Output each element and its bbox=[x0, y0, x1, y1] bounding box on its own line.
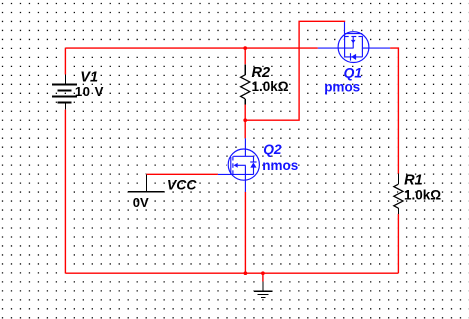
Q2 bulk arrow (points left into channel) bbox=[234, 163, 238, 168]
Q2 source pin (bottom) bbox=[244, 174, 246, 192]
wire: V1 bottom to bottom rail bbox=[64, 110, 66, 274]
svg-text:Q1: Q1 bbox=[344, 65, 362, 80]
svg-text:V1: V1 bbox=[80, 69, 98, 85]
node junction Q2 source at rail bbox=[244, 271, 248, 275]
svg-text:1.0kΩ: 1.0kΩ bbox=[404, 187, 441, 202]
Q1 left lead (to VDD rail node) bbox=[318, 47, 353, 49]
transistor Q1 pmos bbox=[318, 22, 390, 63]
node junction mid bbox=[243, 118, 247, 122]
VCC power symbol bbox=[128, 174, 164, 191]
ground bbox=[254, 282, 273, 298]
white casing to cover grid dots under wires bbox=[53, 21, 403, 297]
wire: VCC to Q2 gate bbox=[146, 173, 218, 175]
wire: mid rail node to riser bbox=[245, 21, 344, 120]
Q1 bulk arrow (points down) bbox=[351, 40, 356, 44]
wire: top rail V1+ to Q1 gate-node bbox=[65, 47, 317, 49]
Q1 source line (left vertical) bbox=[344, 34, 346, 57]
wire: R2 bottom stub bbox=[244, 104, 246, 120]
Q2 drain pin (top) bbox=[244, 138, 246, 156]
Q2 drain stub bbox=[233, 155, 253, 157]
Q2 gate lead + source line bbox=[218, 173, 254, 175]
svg-text:nmos: nmos bbox=[262, 158, 298, 173]
Q2 body diode verticals bbox=[253, 156, 255, 162]
Q1 body diode triangle (points left) bbox=[351, 54, 356, 60]
Q1 right lead (drain out) bbox=[362, 47, 390, 49]
resistor R2 bbox=[241, 64, 250, 104]
Q1 bottom horizontal (source-diode line) bbox=[345, 56, 363, 58]
battery V1 bbox=[52, 75, 77, 110]
Q2 channel dashes bbox=[232, 156, 234, 160]
Q2 circle bbox=[228, 149, 259, 180]
wire: R2 top stub bbox=[244, 48, 246, 64]
resistor R1 bbox=[394, 174, 403, 214]
Q2 body diode cathode bar bbox=[250, 161, 256, 163]
Q1 channel dashes bbox=[345, 36, 349, 38]
Q2 bulk vertical to source bbox=[244, 165, 246, 174]
node junction R2 top bbox=[243, 46, 247, 50]
Q1 bulk vertical bbox=[352, 37, 354, 49]
Q1 body diode cathode bar bbox=[350, 53, 352, 60]
transistor Q2 nmos bbox=[218, 138, 260, 192]
wire: bottom rail bbox=[65, 272, 398, 274]
Q1 drain stub (right vertical) bbox=[361, 37, 363, 57]
svg-text:Q2: Q2 bbox=[263, 142, 282, 157]
Q1 gate pin (from top) bbox=[344, 22, 346, 34]
Q1 gate bar bbox=[345, 33, 363, 35]
wire: Q1 drain to R1 top bbox=[390, 48, 398, 174]
Q1 circle bbox=[338, 32, 369, 63]
svg-text:VCC: VCC bbox=[167, 176, 197, 192]
Q2 gate bar bbox=[230, 157, 232, 174]
wire: V1 top lead bbox=[64, 48, 66, 74]
svg-text:pmos: pmos bbox=[324, 79, 360, 94]
wire: R1 bottom to rail bbox=[397, 214, 399, 273]
Q2 body diode triangle (points up) bbox=[250, 163, 256, 168]
node junction ground at rail bbox=[261, 271, 265, 275]
svg-text:1.0kΩ: 1.0kΩ bbox=[252, 79, 289, 94]
wire: Q2 source down to rail bbox=[244, 192, 246, 273]
svg-text:0V: 0V bbox=[133, 195, 149, 210]
Q2 bulk line bbox=[238, 164, 246, 166]
wire: ground stub bbox=[262, 273, 264, 281]
svg-text:R1: R1 bbox=[404, 173, 423, 189]
svg-text:10 V: 10 V bbox=[75, 84, 104, 99]
wire: Q2 drain up to mid node bbox=[244, 120, 246, 138]
